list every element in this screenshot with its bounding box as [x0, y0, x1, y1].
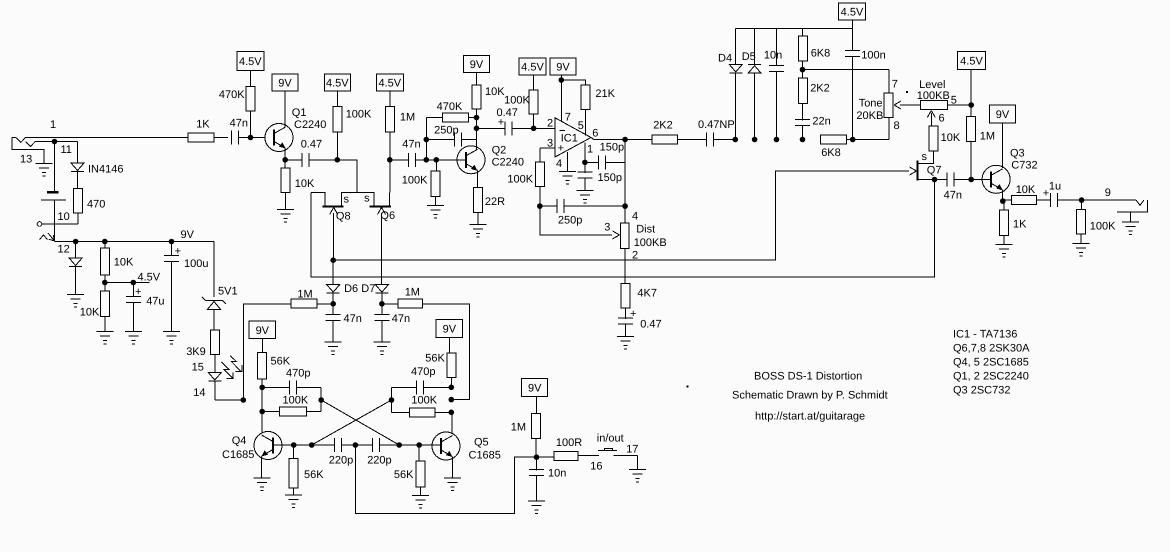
- svg-text:D4: D4: [718, 53, 732, 65]
- svg-text:100n: 100n: [861, 50, 885, 62]
- svg-text:s: s: [922, 151, 928, 163]
- diode D5 clipping: [742, 29, 761, 143]
- svg-text:100KB: 100KB: [634, 237, 667, 249]
- svg-text:4.5V: 4.5V: [841, 7, 864, 19]
- svg-text:4.5V: 4.5V: [239, 56, 262, 68]
- wire 9V node to 21K: [561, 80, 585, 85]
- diode D IN4146: [71, 163, 123, 176]
- svg-text:9: 9: [1105, 187, 1111, 199]
- feedback column wire: [424, 118, 443, 160]
- capacitor 150p (pin1 to gnd): [577, 162, 622, 190]
- wire 470K to collector node: [468, 115, 479, 121]
- svg-text:7: 7: [892, 79, 898, 91]
- svg-text:D7: D7: [361, 283, 375, 295]
- supply box 4.5V (470K bias): [237, 52, 264, 87]
- svg-text:Q1: Q1: [292, 107, 307, 119]
- wire 1M to LED node: [241, 304, 292, 403]
- svg-text:22R: 22R: [485, 196, 505, 208]
- svg-text:IN4146: IN4146: [88, 164, 123, 176]
- wire 47n to Q1 base: [239, 135, 266, 141]
- wire node to Dist wiper: [540, 206, 620, 239]
- svg-text:Schematic Drawn by P. Schmidt: Schematic Drawn by P. Schmidt: [732, 390, 888, 402]
- wire 1M to Q6 drain node: [387, 132, 393, 193]
- resistor 100K (Q8 bias): [333, 106, 372, 131]
- diode D7: [361, 283, 388, 295]
- svg-text:6K8: 6K8: [811, 48, 831, 60]
- svg-text:C732: C732: [1011, 160, 1037, 172]
- pin 6 label: [592, 128, 628, 143]
- resistor 1K (Q3): [999, 201, 1027, 236]
- svg-text:1M: 1M: [980, 131, 995, 143]
- resistor 56K Q4 base: [289, 445, 324, 488]
- wire 1M to Q3 base: [971, 142, 991, 180]
- resistor 10K Q2 collector: [472, 85, 505, 109]
- resistor 470K (Q2 fb): [437, 101, 469, 122]
- output jack node 9: [1082, 187, 1137, 200]
- wire 470 to switch line: [58, 211, 78, 224]
- capacitor 47n (D6): [326, 304, 362, 342]
- supply box 9V (Q3): [990, 105, 1016, 168]
- supply box 4.5V (output): [958, 52, 986, 106]
- resistor 100K (pin2 bias): [504, 90, 538, 114]
- wire 10K to Q2 collector: [474, 109, 480, 149]
- Q4 base wire: [273, 442, 297, 448]
- transistor Q1 C2240: [265, 107, 326, 152]
- svg-text:470K: 470K: [437, 101, 463, 113]
- pin 6 output wire: [591, 138, 652, 140]
- svg-text:10K: 10K: [1016, 184, 1036, 196]
- resistor 2K2 (IC1 out): [652, 120, 678, 145]
- svg-text:Q2: Q2: [492, 145, 507, 157]
- ground below 100K: [427, 197, 444, 219]
- svg-text:1M: 1M: [400, 112, 415, 124]
- svg-text:7: 7: [565, 112, 571, 124]
- svg-text:9V: 9V: [528, 382, 542, 394]
- svg-text:47u: 47u: [146, 296, 164, 308]
- svg-text:0.47: 0.47: [497, 107, 518, 119]
- tone wiper arrow: [894, 101, 921, 109]
- svg-text:47n: 47n: [392, 313, 410, 325]
- svg-text:4.5V: 4.5V: [138, 272, 161, 284]
- ground at switch: [629, 469, 646, 482]
- wire 100K to 250p node: [537, 186, 543, 209]
- svg-text:100u: 100u: [184, 258, 208, 270]
- capacitor 250p (Q2 fb): [426, 125, 461, 147]
- svg-text:10: 10: [58, 211, 70, 223]
- svg-text:Q5: Q5: [474, 437, 489, 449]
- resistor 56K Q5 collector: [425, 353, 456, 388]
- supply box 4.5V (pin2 100K): [519, 58, 546, 90]
- resistor 1M (bypass): [511, 414, 541, 439]
- resistor 470K bias: [219, 86, 255, 111]
- svg-text:47n: 47n: [944, 190, 962, 202]
- pin 5 wire: [578, 109, 586, 135]
- svg-text:150p: 150p: [600, 142, 624, 154]
- svg-text:100K: 100K: [283, 395, 309, 407]
- svg-text:Q3 2SC732: Q3 2SC732: [953, 385, 1010, 397]
- svg-text:470K: 470K: [219, 89, 245, 101]
- node 100n junction: [847, 137, 889, 143]
- LED light arrows: [221, 356, 242, 379]
- svg-text:Q4: Q4: [232, 435, 247, 447]
- input jack sleeve + ground: [12, 138, 53, 176]
- svg-text:11: 11: [61, 144, 72, 156]
- svg-text:0.47: 0.47: [301, 139, 322, 151]
- wire D6 to node: [330, 293, 336, 307]
- ground below 0.47: [617, 337, 634, 350]
- svg-text:http://start.at/guitarage: http://start.at/guitarage: [755, 411, 865, 423]
- clipping rail top wire: [735, 28, 852, 30]
- capacitor 47n (D7): [374, 304, 410, 342]
- supply box 4.5V (tone): [839, 3, 866, 50]
- capacitor 100n: [845, 50, 886, 140]
- potentiometer Tone 20KB: [856, 70, 899, 140]
- svg-text:Q7: Q7: [927, 165, 942, 177]
- svg-text:250p: 250p: [434, 125, 458, 137]
- potentiometer Dist 100KB: [621, 211, 667, 262]
- resistor 10K Q1 emitter: [281, 160, 315, 193]
- svg-text:56K: 56K: [425, 353, 445, 365]
- svg-text:Q6: Q6: [380, 210, 395, 222]
- supply box 4.5V (100K): [324, 74, 350, 106]
- resistor 100K (pin3): [507, 148, 555, 186]
- svg-text:2: 2: [632, 250, 638, 262]
- svg-text:16: 16: [590, 461, 602, 473]
- ground below diode: [67, 294, 84, 307]
- svg-text:C2240: C2240: [294, 119, 326, 131]
- capacitor 0.47 coupling: [285, 139, 322, 167]
- wire LED to node: [215, 381, 244, 400]
- svg-text:6: 6: [939, 113, 945, 125]
- wire switch to ground: [613, 455, 637, 469]
- wire rail to zener: [213, 242, 215, 298]
- supply box 9V (Q5): [436, 320, 463, 353]
- svg-text:56K: 56K: [304, 469, 324, 481]
- svg-text:100K: 100K: [402, 175, 428, 187]
- wire Q3 emitter to node: [1000, 190, 1006, 204]
- supply box 9V (IC1): [550, 58, 576, 83]
- capacitor 220p (left): [329, 438, 353, 467]
- svg-text:3K9: 3K9: [186, 346, 206, 358]
- capacitor 1u electrolytic: [1036, 181, 1061, 208]
- wire 56K to Q4 collector: [259, 379, 265, 432]
- capacitor 220p (right): [367, 438, 391, 467]
- svg-text:10K: 10K: [941, 132, 961, 144]
- node 6K8/2K2 junction: [800, 61, 889, 73]
- supply box 9V (Q1): [272, 74, 298, 127]
- resistor 1M (Q6 drain): [385, 106, 415, 131]
- svg-text:2: 2: [547, 117, 553, 129]
- input jack J1 (tip contact, node 1): [12, 119, 188, 147]
- svg-text:56K: 56K: [394, 469, 414, 481]
- wire 0.47NP to clipping node: [714, 137, 739, 143]
- svg-text:s: s: [364, 193, 370, 205]
- 9V rail wire: [55, 224, 215, 242]
- svg-text:1: 1: [587, 144, 593, 156]
- svg-text:4K7: 4K7: [637, 288, 657, 300]
- LED indicator: [193, 373, 221, 400]
- supply box 9V (Q4): [249, 321, 276, 352]
- resistor 1M (D6 to LED): [291, 289, 333, 308]
- svg-text:6K8: 6K8: [821, 147, 841, 159]
- svg-text:100K: 100K: [1090, 221, 1116, 233]
- svg-text:150p: 150p: [598, 172, 622, 184]
- svg-text:13: 13: [20, 154, 32, 166]
- output node column: [622, 140, 628, 224]
- reverse-protection diode: [69, 242, 82, 295]
- resistor 21K: [581, 85, 615, 109]
- Q5 collector column: [449, 385, 455, 434]
- capacitor 47n (Q2 base): [390, 139, 421, 167]
- wire node11 to battery and diode branch: [55, 142, 78, 192]
- svg-text:10K: 10K: [485, 86, 505, 98]
- wire 470K to node: [249, 111, 251, 138]
- capacitor 0.47NP: [678, 119, 735, 147]
- transistor Q3 C732: [982, 148, 1037, 194]
- svg-text:8: 8: [894, 120, 900, 132]
- svg-text:4.5V: 4.5V: [521, 62, 544, 74]
- zener diode 5V1: [202, 286, 238, 310]
- resistor 56K Q4 collector: [258, 352, 291, 379]
- svg-text:9V: 9V: [278, 78, 292, 90]
- svg-text:14: 14: [193, 387, 205, 399]
- resistor 6K8 (tone LP): [821, 135, 847, 159]
- bottom bypass wire: [355, 445, 536, 514]
- ground below 100u: [163, 331, 180, 344]
- Q6 gate arrow: [378, 207, 386, 284]
- svg-text:10n: 10n: [548, 468, 566, 480]
- svg-text:17: 17: [626, 444, 638, 456]
- capacitor 47u electrolytic: [126, 283, 165, 332]
- capacitor 0.47 electrolytic (dist): [618, 308, 662, 337]
- node mid 220p: [341, 442, 372, 448]
- svg-text:1M: 1M: [511, 422, 526, 434]
- svg-text:D5: D5: [742, 51, 756, 63]
- resistor 10K lower divider: [80, 283, 110, 319]
- svg-text:BOSS DS-1 Distortion: BOSS DS-1 Distortion: [754, 371, 862, 383]
- wire 3K9 to LED: [192, 354, 215, 373]
- svg-text:Tone: Tone: [859, 98, 883, 110]
- stray dot 1: [687, 386, 689, 388]
- resistor 4K7: [621, 284, 657, 309]
- svg-text:9V: 9V: [470, 59, 484, 71]
- Q7 drain node: [932, 177, 938, 183]
- svg-text:4.5V: 4.5V: [326, 78, 349, 90]
- diode D6: [327, 260, 358, 295]
- stray dot 2: [906, 91, 908, 93]
- wire 1M to Q5 collector node: [423, 304, 470, 400]
- wire 47n to Q2 base: [416, 157, 467, 163]
- ground below 22R: [469, 213, 486, 238]
- svg-text:250p: 250p: [558, 215, 582, 227]
- resistor 3K9: [186, 330, 219, 358]
- svg-text:10n: 10n: [764, 50, 782, 62]
- svg-text:1u: 1u: [1049, 181, 1061, 193]
- transistor Q2 C2240: [457, 145, 524, 174]
- svg-text:100K: 100K: [411, 395, 437, 407]
- ground below 47u: [125, 331, 142, 344]
- svg-text:100K: 100K: [504, 95, 530, 107]
- supply box 9V (bypass): [522, 378, 548, 413]
- svg-text:22n: 22n: [812, 116, 830, 128]
- svg-text:2K2: 2K2: [653, 120, 673, 132]
- wire Level to 4.5V node: [948, 102, 975, 108]
- capacitor 10n clipping: [764, 29, 784, 143]
- svg-text:470p: 470p: [411, 366, 435, 378]
- svg-text:100K: 100K: [346, 109, 372, 121]
- wire Q2 emitter to 22R: [477, 171, 479, 188]
- node 11 junction dot: [52, 139, 72, 156]
- capacitor 10n (bypass): [529, 457, 566, 501]
- wire 1K to 47n: [214, 137, 228, 139]
- svg-text:56K: 56K: [271, 356, 291, 368]
- Q5 emitter ground: [444, 457, 461, 491]
- resistor 1K: [188, 119, 214, 143]
- svg-text:47n: 47n: [344, 313, 362, 325]
- resistor 100K Q2 base bias: [402, 160, 440, 197]
- transistor Q5 C1685: [432, 432, 501, 462]
- wire diode to resistor: [77, 172, 79, 189]
- svg-text:1K: 1K: [196, 119, 210, 131]
- resistor 100K (Q5 cross): [392, 395, 452, 417]
- wire 0.47 to pin2: [512, 126, 555, 132]
- svg-text:C1685: C1685: [222, 449, 254, 461]
- parts list text: [953, 329, 1030, 397]
- rail junction dots: [73, 239, 175, 245]
- left side of Q5 pair: [389, 387, 395, 412]
- resistor 470: [73, 189, 105, 214]
- wire Q1 emitter to node: [282, 148, 288, 163]
- svg-text:47n: 47n: [402, 139, 420, 151]
- potentiometer Level 100KB: [917, 79, 957, 125]
- resistor 1M (D7 to Q5): [382, 287, 423, 308]
- pin 4 wire and ground: [556, 152, 576, 184]
- svg-text:1M: 1M: [297, 289, 312, 301]
- svg-text:9V: 9V: [556, 62, 570, 74]
- svg-text:+: +: [558, 143, 564, 155]
- svg-text:3: 3: [604, 222, 610, 234]
- resistor 22R: [473, 188, 505, 213]
- switch in/out: [578, 433, 638, 473]
- capacitor 0.47 electrolytic to IC1: [477, 107, 518, 135]
- JFET Q7 2SK30A: [918, 151, 942, 180]
- title text: [732, 371, 888, 423]
- capacitor 250p (dist fb): [540, 199, 625, 226]
- capacitor 47n input: [230, 118, 248, 145]
- wire zener to 3K9: [213, 310, 215, 331]
- diode D4 clipping: [718, 29, 742, 140]
- svg-text:220p: 220p: [329, 455, 353, 467]
- wire 100K to node: [336, 132, 338, 160]
- svg-text:0.47: 0.47: [640, 319, 661, 331]
- wire 100K to pin2 node: [533, 114, 535, 128]
- ground below 10n: [528, 501, 545, 514]
- svg-text:5: 5: [578, 120, 584, 132]
- svg-text:100R: 100R: [556, 437, 582, 449]
- JFET Q8 2SK30A: [311, 193, 357, 223]
- svg-text:47n: 47n: [230, 118, 248, 130]
- svg-text:D6: D6: [344, 283, 358, 295]
- wire 220p to Q5 base: [380, 442, 442, 448]
- svg-text:470p: 470p: [286, 368, 310, 380]
- resistor 10K upper divider: [100, 242, 134, 276]
- resistor 100R: [537, 437, 583, 461]
- capacitor 470p (Q4): [262, 368, 321, 395]
- ground below lower 10K: [96, 316, 113, 344]
- svg-text:2K2: 2K2: [810, 83, 830, 95]
- Q4 emitter ground: [254, 457, 271, 491]
- svg-text:s: s: [344, 193, 350, 205]
- output jack ground: [1122, 222, 1139, 235]
- svg-text:0.47NP: 0.47NP: [698, 119, 735, 131]
- svg-text:Q6,7,8 2SK30A: Q6,7,8 2SK30A: [953, 343, 1030, 355]
- svg-text:4: 4: [556, 158, 562, 170]
- svg-text:Q1, 2 2SC2240: Q1, 2 2SC2240: [953, 371, 1029, 383]
- svg-text:1: 1: [50, 119, 56, 131]
- svg-text:C2240: C2240: [492, 157, 524, 169]
- ground below 150p: [576, 191, 593, 204]
- supply box 4.5V (1M Q6): [376, 74, 403, 106]
- svg-text:9V: 9V: [181, 229, 195, 241]
- svg-text:10K: 10K: [295, 178, 315, 190]
- transistor Q4 C1685 (mirrored): [222, 432, 282, 462]
- svg-text:20KB: 20KB: [856, 110, 883, 122]
- resistor 100K (Q4 cross): [262, 395, 309, 417]
- wire 1u to output node: [1057, 197, 1084, 203]
- svg-text:6: 6: [592, 128, 598, 140]
- Q8 gate arrow: [330, 207, 338, 260]
- node 4.5V divider dot: [102, 272, 161, 286]
- svg-text:21K: 21K: [595, 88, 615, 100]
- wire Dist pin2 to 4K7: [624, 249, 626, 284]
- svg-text:4.5V: 4.5V: [378, 78, 401, 90]
- svg-text:in/out: in/out: [597, 433, 624, 445]
- svg-text:1K: 1K: [1013, 219, 1027, 231]
- wire node to FET sources: [337, 160, 357, 193]
- ground below 47n D7: [373, 342, 390, 355]
- battery BT1: [41, 191, 66, 224]
- svg-text:470: 470: [87, 199, 105, 211]
- ground below Q4 56K: [285, 488, 302, 508]
- resistor 100K (output load): [1077, 200, 1117, 234]
- svg-text:Q4, 5 2SC1685: Q4, 5 2SC1685: [953, 357, 1029, 369]
- right side of Q4 pair: [306, 387, 324, 411]
- svg-text:9V: 9V: [443, 324, 457, 336]
- capacitor 150p (pin1 to out): [585, 142, 625, 170]
- ground below Q5 56K: [412, 487, 429, 508]
- svg-text:1M: 1M: [405, 287, 420, 299]
- resistor 2K2 (tone): [798, 70, 829, 104]
- svg-text:15: 15: [192, 362, 204, 374]
- pin 1 wire: [582, 142, 593, 165]
- svg-text:100KB: 100KB: [917, 90, 950, 102]
- svg-text:Dist: Dist: [636, 224, 655, 236]
- resistor 10K (Q3 emitter out): [1003, 184, 1037, 205]
- cross wire A (Q4 pair to Q5 base): [321, 400, 399, 445]
- switch control wire1 Q8 gate to Q7 gate: [330, 167, 916, 263]
- svg-text:9V: 9V: [996, 109, 1010, 121]
- capacitor 22n tone: [795, 104, 831, 143]
- JFET Q6 2SK30A: [357, 193, 395, 223]
- power switch contact (open circle): [37, 222, 78, 227]
- ground below 1K: [995, 236, 1012, 257]
- wire D7 to node: [379, 293, 385, 307]
- ground below 47n D6: [325, 342, 342, 355]
- svg-text:IC1 - TA7136: IC1 - TA7136: [953, 329, 1017, 341]
- capacitor 100u electrolytic: [164, 242, 208, 332]
- switch actuator arrow (node 12): [40, 233, 70, 256]
- op-amp IC1 TA7136 triangle: [547, 117, 591, 157]
